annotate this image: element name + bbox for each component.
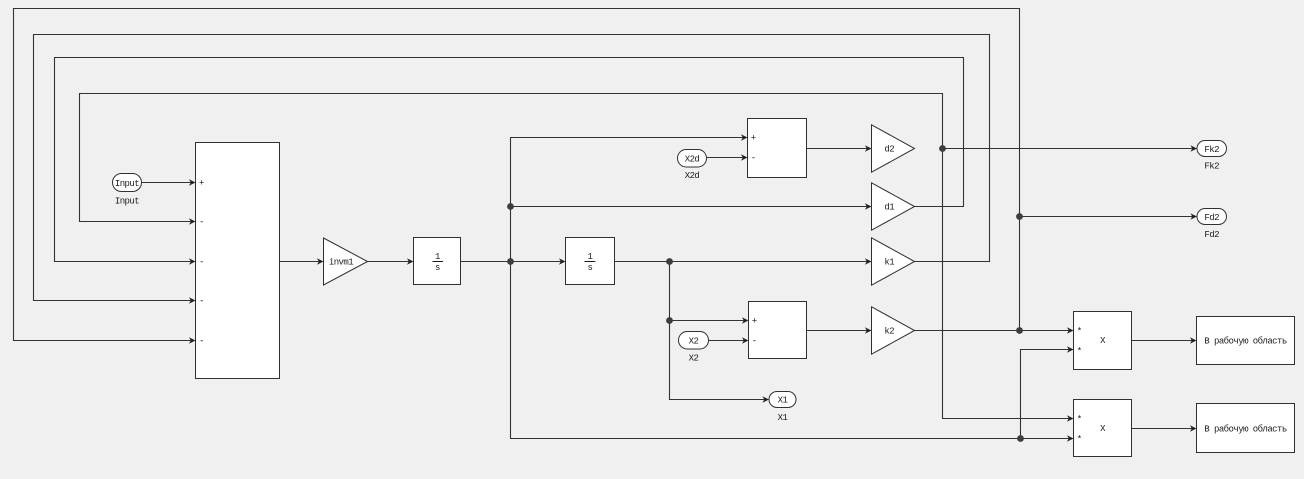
wire feedback d1 output to Add input 3 (55, 58, 964, 262)
wire node D2OUT down to product X bottom input 1 (943, 149, 1072, 419)
wire Input port to Add input 1 (142, 182, 194, 184)
wire integrator I1 to integrator I2 (461, 261, 564, 263)
svg-text:*: * (1077, 415, 1082, 425)
svg-text:-: - (199, 217, 204, 227)
integrator I1 (1/s) (414, 238, 461, 285)
svg-text:X2d: X2d (685, 154, 700, 164)
wire node FD2 to port Fd2 (1020, 216, 1195, 218)
gain d1 (872, 183, 915, 230)
svg-text:+: + (751, 133, 756, 143)
wire node V to gain d1 input (511, 206, 870, 208)
svg-text:s: s (587, 263, 592, 273)
integrator I2 (1/s) (566, 238, 615, 285)
junction node V to d1 tap (507, 203, 514, 210)
wire gain k2 to product X top input 1 (915, 330, 1072, 332)
workspace block 1 (To Workspace) (1197, 317, 1295, 365)
wire integrator I2 to gain k1 (615, 261, 870, 263)
svg-text:-: - (199, 336, 204, 346)
svg-text:X1: X1 (778, 413, 788, 423)
wire feedback outer from node K2OUT to Add input 5 (14, 9, 1020, 341)
junction node V (integrator I1 output) (507, 258, 514, 265)
wire product X top to workspace block 1 (1132, 340, 1195, 342)
svg-text:*: * (1077, 347, 1082, 357)
gain d2 (872, 125, 915, 172)
svg-text:-: - (199, 257, 204, 267)
svg-text:X2d: X2d (685, 171, 700, 181)
svg-text:-: - (752, 336, 757, 346)
svg-text:-: - (751, 153, 756, 163)
junction node P (integrator I2 output) (666, 258, 673, 265)
wire port X2d to sum S1 input 2 (707, 157, 746, 159)
svg-text:-: - (199, 296, 204, 306)
wire node P down to sum S2 input 1 (670, 262, 747, 321)
junction node P2 (sum S2 tap) (666, 317, 673, 324)
source port X2d (678, 150, 707, 182)
gain invm1 (324, 238, 368, 285)
wire node VB up to product X top input 2 (1021, 350, 1072, 439)
svg-text:Fd2: Fd2 (1204, 213, 1219, 223)
adder block Add (5 inputs) (196, 143, 280, 379)
wire sum S2 to gain k2 (807, 330, 870, 332)
svg-text:+: + (199, 178, 204, 188)
product block X top (1074, 312, 1132, 370)
svg-text:d1: d1 (884, 203, 894, 213)
svg-text:k1: k1 (884, 258, 894, 268)
wire Add output to gain invm1 (280, 261, 322, 263)
junction node D2OUT (939, 145, 946, 152)
wire feedback from node D2OUT to Add input 2 (80, 94, 943, 222)
output port Fd2 (1197, 209, 1227, 240)
wire port X2 to sum S2 input 2 (709, 340, 746, 342)
svg-text:Fd2: Fd2 (1204, 230, 1219, 240)
wire gain invm1 to integrator I1 (368, 261, 412, 263)
svg-text:s: s (435, 263, 440, 273)
junction node K2OUT (1016, 327, 1023, 334)
svg-text:+: + (752, 316, 757, 326)
svg-text:Fk2: Fk2 (1204, 161, 1219, 171)
sum block S2 (749, 302, 807, 359)
svg-text:k2: k2 (884, 327, 894, 337)
wire product X bottom to workspace block 2 (1132, 428, 1195, 430)
wire node P2 down to port X1 (670, 321, 767, 400)
wire sum S1 to gain d2 (807, 148, 870, 150)
svg-text:1: 1 (435, 252, 440, 262)
sum block S1 (748, 119, 807, 178)
svg-text:invm1: invm1 (329, 258, 353, 268)
gain k1 (872, 238, 915, 285)
svg-text:Input: Input (115, 179, 139, 189)
input port Input (113, 174, 142, 207)
svg-text:d2: d2 (884, 145, 894, 155)
wire node V up to sum S1 input 1 (511, 138, 746, 262)
output port X1 (769, 392, 796, 423)
product block X bottom (1074, 400, 1132, 457)
svg-text:В рабочую область: В рабочую область (1204, 425, 1287, 435)
svg-text:X2: X2 (689, 337, 699, 347)
svg-text:1: 1 (587, 252, 592, 262)
svg-text:X2: X2 (689, 354, 699, 364)
wire node D2OUT to port Fk2 (943, 148, 1195, 150)
output port Fk2 (1197, 141, 1227, 172)
junction node FD2 (1016, 213, 1023, 220)
svg-text:*: * (1077, 327, 1082, 337)
svg-text:Input: Input (115, 197, 139, 207)
svg-text:X1: X1 (778, 396, 788, 406)
svg-text:В рабочую область: В рабочую область (1204, 337, 1287, 347)
wire node V down to product X bottom input 2 (511, 262, 1072, 439)
junction node VB (velocity bottom) (1017, 435, 1024, 442)
svg-text:*: * (1077, 435, 1082, 445)
gain k2 (872, 307, 915, 354)
workspace block 2 (To Workspace) (1197, 404, 1295, 453)
svg-text:Fk2: Fk2 (1204, 145, 1219, 155)
wire feedback k1 output to Add input 4 (34, 35, 990, 301)
source port X2 (679, 332, 709, 364)
